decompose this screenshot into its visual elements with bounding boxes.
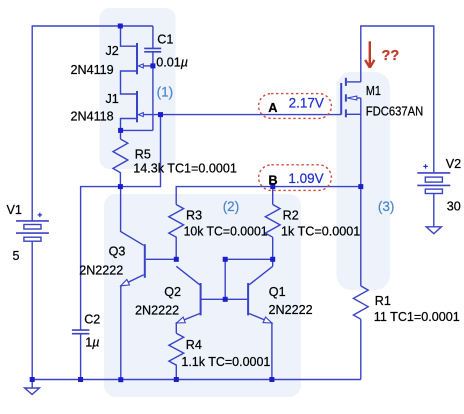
highlight region (2) bbox=[104, 194, 301, 397]
wire R2 top lead bbox=[272, 187, 274, 205]
svg-text:J2: J2 bbox=[106, 44, 119, 58]
svg-text:(2): (2) bbox=[223, 199, 240, 214]
svg-text:A: A bbox=[268, 100, 277, 115]
wire base node link bbox=[225, 258, 273, 260]
svg-text:M1: M1 bbox=[366, 84, 381, 98]
node Q1 emitter bottom bbox=[269, 377, 274, 382]
wire J1 source bbox=[121, 119, 137, 140]
node M1 source B rail bbox=[358, 184, 363, 189]
svg-text:2.17V: 2.17V bbox=[289, 96, 324, 111]
wire Q3 base bbox=[146, 258, 176, 260]
svg-text:14.3k TC1=0.0001: 14.3k TC1=0.0001 bbox=[133, 162, 237, 176]
wire Q3 emitter bbox=[121, 275, 144, 380]
node R4 bottom bbox=[174, 377, 179, 382]
ground V2 bbox=[426, 227, 441, 234]
svg-text:Q2: Q2 bbox=[164, 285, 181, 299]
svg-text:J1: J1 bbox=[106, 92, 119, 106]
svg-text:5: 5 bbox=[13, 249, 20, 263]
wire top rail M1 drain to V2 bbox=[361, 26, 434, 173]
resistor R2 bbox=[265, 205, 280, 238]
node A junction bbox=[158, 112, 163, 117]
svg-text:30: 30 bbox=[447, 200, 461, 214]
ground V1 bbox=[25, 380, 40, 395]
node B junction bbox=[270, 184, 275, 189]
junction node squares bbox=[30, 24, 364, 383]
node C2 bottom bbox=[78, 377, 83, 382]
red dashed oval node A voltage bbox=[259, 94, 332, 119]
svg-text:V2: V2 bbox=[446, 157, 461, 171]
svg-text:(3): (3) bbox=[378, 199, 395, 214]
node V1 ground bbox=[30, 377, 35, 382]
node base rail bbox=[223, 297, 228, 302]
MOSFET M1 FDC637AN bbox=[341, 78, 361, 118]
label V1 plus sign bbox=[38, 213, 43, 217]
node C1 J2 gate bbox=[150, 63, 155, 68]
wire R2 bottom to Q1 collector node bbox=[272, 237, 274, 266]
wire J2 gate lead bbox=[143, 65, 153, 67]
wire R1 bottom lead bbox=[360, 319, 362, 379]
svg-text:R1: R1 bbox=[375, 294, 391, 308]
svg-text:Q1: Q1 bbox=[269, 285, 286, 299]
red dashed oval node B voltage bbox=[259, 165, 332, 191]
wire top rail V1 to C1 bbox=[32, 26, 153, 221]
transistor Q2 2N2222 bbox=[177, 283, 201, 323]
wire Q1 Q2 base rail bbox=[202, 298, 248, 300]
highlight region (1) bbox=[100, 8, 176, 169]
svg-text:1.09V: 1.09V bbox=[288, 171, 323, 186]
wire base link vertical bbox=[224, 259, 226, 299]
svg-text:B: B bbox=[268, 172, 277, 187]
node Q3 base R3 bottom bbox=[174, 257, 179, 262]
node base link left bbox=[223, 257, 228, 262]
resistor R4 bbox=[169, 333, 184, 379]
label V2 plus sign bbox=[423, 164, 428, 168]
svg-text:R2: R2 bbox=[283, 209, 299, 223]
node Q3 emitter bottom bbox=[118, 377, 123, 382]
svg-text:2N2222: 2N2222 bbox=[269, 303, 313, 317]
wire Q3 collector bbox=[121, 187, 144, 246]
svg-text:Q3: Q3 bbox=[109, 245, 126, 259]
battery V1 bbox=[16, 221, 49, 241]
transistor Q3 2N2222 bbox=[121, 244, 145, 286]
JFET J2 2N4119 bbox=[137, 43, 143, 74]
highlight region (3) bbox=[337, 72, 391, 290]
wire M1 source down through B rail to R1 bbox=[360, 98, 362, 286]
wire C1 top lead bbox=[152, 26, 154, 48]
svg-text:FDC637AN: FDC637AN bbox=[366, 104, 424, 118]
battery V2 bbox=[417, 173, 450, 194]
svg-text:10k TC=0.0001: 10k TC=0.0001 bbox=[184, 225, 268, 239]
svg-text:11 TC1=0.0001: 11 TC1=0.0001 bbox=[374, 310, 460, 324]
svg-text:R5: R5 bbox=[135, 147, 151, 161]
svg-text:1k TC=0.0001: 1k TC=0.0001 bbox=[281, 225, 360, 239]
svg-text:R3: R3 bbox=[186, 209, 202, 223]
wire B rail bbox=[176, 187, 361, 205]
node R2 bottom Q1 collector bbox=[270, 257, 275, 262]
svg-text:C2: C2 bbox=[84, 313, 100, 327]
svg-text:0.01µ: 0.01µ bbox=[156, 56, 188, 70]
wire J2 source to J1 drain bbox=[121, 71, 137, 94]
red arrow current question bbox=[365, 41, 374, 67]
wire Q2 collector diagonal bbox=[176, 266, 200, 285]
svg-text:2N2222: 2N2222 bbox=[79, 264, 123, 278]
resistor R1 bbox=[353, 286, 368, 319]
resistor R5 bbox=[113, 139, 128, 187]
wire J2 drain bbox=[121, 26, 137, 46]
wire C2 bottom lead bbox=[80, 334, 82, 380]
svg-text:R4: R4 bbox=[186, 338, 202, 352]
capacitor C1 bbox=[144, 48, 161, 51]
JFET J1 2N4118 bbox=[137, 91, 143, 122]
wire J1 source node to link bbox=[121, 129, 153, 131]
wire Q2 emitter bbox=[176, 314, 200, 334]
wire Q1 emitter bbox=[249, 314, 272, 380]
svg-text:1µ: 1µ bbox=[85, 336, 99, 350]
wire V1 bottom lead bbox=[31, 241, 33, 379]
svg-text:2N4119: 2N4119 bbox=[71, 63, 114, 77]
resistor R3 bbox=[169, 205, 184, 260]
wire V2 bottom to ground bbox=[433, 194, 435, 227]
svg-text:2N2222: 2N2222 bbox=[135, 304, 179, 318]
wire node A horizontal bbox=[143, 114, 341, 116]
wire bottom ground rail bbox=[32, 379, 361, 381]
svg-text:C1: C1 bbox=[157, 33, 173, 47]
node R5 bottom left rail bbox=[118, 184, 123, 189]
wire node A down to left rail and C2 bbox=[81, 115, 161, 330]
svg-text:2N4118: 2N4118 bbox=[71, 110, 114, 124]
wire C1 bottom link down to J1 source node bbox=[152, 52, 154, 130]
transistor Q1 2N2222 bbox=[248, 283, 272, 323]
svg-text:(1): (1) bbox=[157, 84, 174, 99]
node J2 drain top bbox=[118, 24, 123, 29]
wire Q1 collector diagonal bbox=[249, 266, 273, 285]
svg-text:1.1k TC=0.0001: 1.1k TC=0.0001 bbox=[181, 355, 270, 369]
svg-text:??: ?? bbox=[382, 48, 400, 64]
node J1 source bbox=[118, 128, 123, 133]
svg-text:V1: V1 bbox=[7, 203, 22, 217]
capacitor C2 bbox=[72, 330, 90, 334]
